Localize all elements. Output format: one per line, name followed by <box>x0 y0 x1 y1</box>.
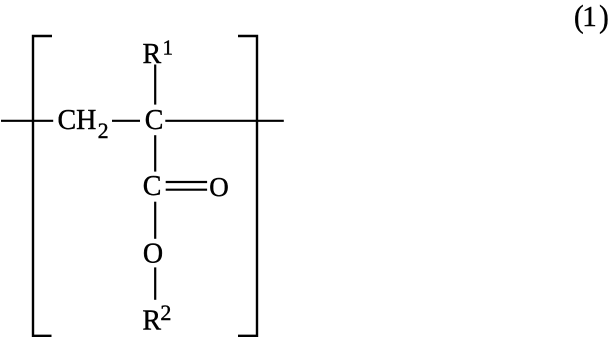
svg-text:2: 2 <box>98 118 109 143</box>
right bracket <box>238 36 257 336</box>
svg-text:CH: CH <box>58 105 97 136</box>
svg-text:R: R <box>143 39 162 70</box>
wire backbone bond left segment <box>1 120 53 122</box>
wire bond carbonyl C to ester O <box>154 202 156 239</box>
wire double bond C=O upper line <box>166 181 207 183</box>
svg-text:O: O <box>209 172 229 202</box>
wire bond C to carbonyl C <box>154 135 156 171</box>
wire bond CH2 to C <box>112 120 140 122</box>
wire bond O to R2 <box>154 267 156 299</box>
wire bond R1 to C <box>154 65 156 105</box>
svg-text:O: O <box>143 238 163 269</box>
svg-text:1: 1 <box>163 35 174 59</box>
wire backbone bond right segment <box>165 120 283 122</box>
svg-text:C: C <box>143 171 162 202</box>
svg-text:1: 1 <box>582 1 597 33</box>
svg-text:2: 2 <box>160 300 171 325</box>
svg-text:R: R <box>142 306 161 337</box>
left bracket <box>33 36 52 336</box>
wire double bond C=O lower line <box>166 189 207 191</box>
svg-text:): ) <box>599 0 609 34</box>
svg-text:C: C <box>145 105 164 136</box>
